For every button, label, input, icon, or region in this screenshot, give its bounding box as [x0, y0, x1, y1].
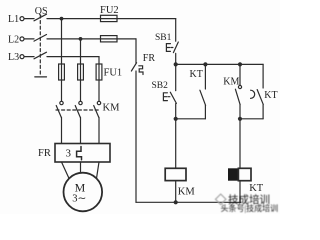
svg-text:KM: KM — [103, 102, 121, 113]
svg-text:L3: L3 — [8, 52, 19, 63]
svg-text:FR: FR — [143, 53, 156, 64]
svg-text:FR: FR — [38, 148, 51, 159]
svg-text:L1: L1 — [8, 14, 19, 25]
svg-text:KT: KT — [249, 183, 264, 194]
svg-text:KT: KT — [264, 90, 277, 101]
svg-text:头条号|技成培训: 头条号|技成培训 — [221, 203, 279, 213]
svg-text:KM: KM — [178, 186, 196, 197]
svg-text:3∼: 3∼ — [72, 194, 86, 205]
svg-text:SB2: SB2 — [152, 81, 169, 91]
svg-text:FU2: FU2 — [100, 5, 119, 16]
svg-text:KM: KM — [223, 76, 239, 87]
svg-text:QS: QS — [35, 6, 48, 17]
svg-text:FU1: FU1 — [104, 68, 123, 79]
svg-text:SB1: SB1 — [155, 33, 172, 43]
svg-text:KT: KT — [190, 69, 203, 80]
svg-text:L2: L2 — [8, 34, 19, 45]
svg-text:M: M — [75, 180, 86, 194]
svg-text:3: 3 — [66, 147, 72, 159]
